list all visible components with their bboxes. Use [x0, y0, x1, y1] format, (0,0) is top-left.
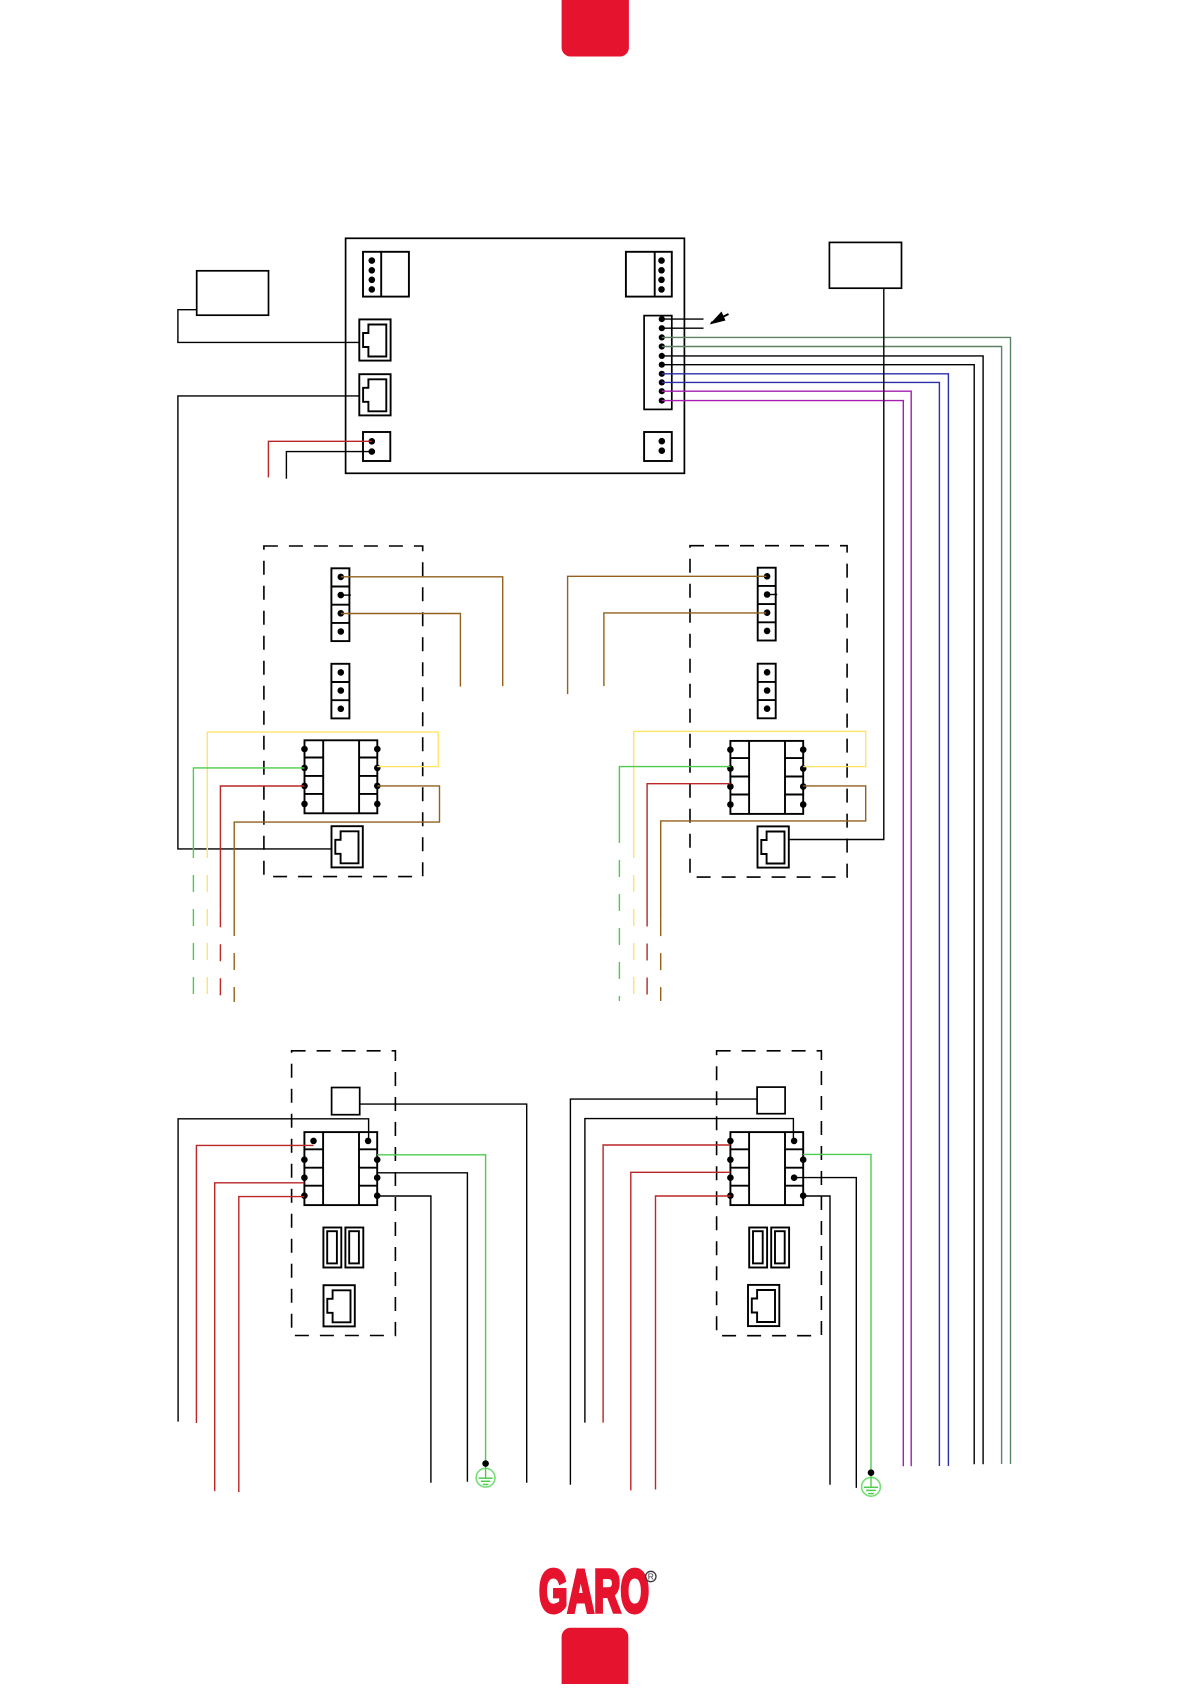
- relay K4 (lower-right): [727, 1132, 806, 1205]
- RJ45 jack (lower-left module): [324, 1285, 355, 1326]
- terminal block X2 (controller top-right): [626, 252, 672, 297]
- wire J2 to left comms bus: [178, 396, 359, 849]
- pin header P1 (10-pin): [644, 316, 672, 410]
- brown wire K2: [661, 786, 866, 1001]
- wire top-right box to right module RJ45: [788, 288, 883, 839]
- red wire K2: [647, 784, 730, 1001]
- terminal strip TS2 (middle-left, 3 pole): [331, 664, 349, 719]
- controller U1 outline: [346, 238, 685, 473]
- svg-text:R: R: [648, 1572, 654, 1582]
- wire P1 pin5 (black): [662, 356, 983, 1464]
- green wire K1: [193, 768, 304, 1004]
- wire small box to bottom right: [360, 1104, 527, 1483]
- yellow wire K2: [634, 731, 866, 1001]
- wire P1 pin10 (magenta): [662, 401, 904, 1467]
- black wire K4 pin4: [803, 1196, 830, 1485]
- RJ45 jack (middle-left module): [332, 826, 363, 867]
- green earth wire K4: [803, 1154, 871, 1472]
- small box (lower-right module): [757, 1087, 785, 1114]
- lower-right module dashed border: [717, 1051, 822, 1336]
- RJ45 jack J2 (controller lower): [359, 374, 390, 415]
- small box (lower-left module): [332, 1088, 360, 1115]
- wire P1 pin4 (green): [662, 347, 1002, 1465]
- wire P1 pin9 (magenta): [662, 391, 911, 1466]
- relay K2 (middle-right): [727, 741, 806, 814]
- pin1 stub wire: [662, 318, 704, 320]
- brown wire TS3 pin3: [604, 613, 766, 686]
- pin2 stub wire: [662, 327, 704, 329]
- red wire K4 pin3: [631, 1172, 731, 1490]
- ground symbol (left): [476, 1460, 495, 1487]
- wire left box to J1: [178, 310, 359, 343]
- wire relay K3 top pin loop: [178, 1119, 369, 1422]
- middle-right module dashed border: [690, 546, 847, 877]
- red header tab: [562, 0, 629, 57]
- wire small box to bottom left: [570, 1099, 757, 1485]
- terminal block X3 (controller bottom-left 2-pin): [363, 432, 390, 461]
- green earth wire K3: [377, 1155, 485, 1464]
- wire relay K4 top pin loop: [585, 1119, 794, 1423]
- lower-left module dashed border: [292, 1051, 396, 1336]
- RJ45 jack (lower-right module): [748, 1285, 779, 1326]
- arrow marker: [710, 312, 729, 325]
- RJ45 jack (middle-right module): [758, 826, 789, 867]
- red wire from X3 pin1: [268, 441, 371, 477]
- terminal block X4 (controller bottom-right 2-pin): [644, 432, 672, 461]
- USB port B (lower-right): [771, 1228, 789, 1268]
- terminal strip TS1 (middle-left, 4 pole): [331, 568, 351, 641]
- brown wire TS3 pin1: [568, 576, 767, 694]
- wire P1 pin6 (black): [662, 365, 974, 1465]
- red wire K3 pin1: [196, 1145, 313, 1423]
- yellow wire K1: [207, 732, 438, 1003]
- black wire K3 pin3: [377, 1173, 467, 1482]
- red wire K3 pin4: [239, 1197, 305, 1493]
- left accessory box: [197, 271, 269, 315]
- black wire K3 pin4: [377, 1196, 431, 1483]
- wire P1 pin7 (blue): [662, 374, 949, 1466]
- terminal block X1 (controller top-left): [363, 252, 409, 297]
- red wire K4 pin1: [603, 1145, 730, 1423]
- brown wire K1: [234, 786, 439, 1002]
- USB port A (lower-right): [749, 1228, 767, 1268]
- RJ45 jack J1 (controller upper): [359, 319, 390, 360]
- relay K1 (middle-left): [301, 740, 380, 813]
- USB port A (lower-left): [323, 1228, 341, 1268]
- wire P1 pin8 (blue): [662, 382, 940, 1466]
- brown wire TS1 pin1: [341, 577, 503, 686]
- black wire K4 pin3: [794, 1178, 856, 1488]
- red footer tab: [562, 1628, 629, 1689]
- brown wire TS1 pin3: [341, 614, 461, 687]
- wire P1 pin3 (green): [662, 337, 1011, 1464]
- ground symbol (right): [862, 1469, 881, 1496]
- red wire K3 pin3: [215, 1183, 305, 1491]
- USB port B (lower-left): [345, 1228, 363, 1268]
- top-right accessory box: [829, 242, 901, 288]
- svg-text:GARO: GARO: [539, 1558, 649, 1625]
- red wire K4 pin4: [656, 1196, 731, 1490]
- terminal strip TS3 (middle-right, 4 pole): [758, 568, 778, 641]
- black wire from X3 pin2: [286, 452, 371, 479]
- red wire K1: [220, 786, 304, 1002]
- relay K3 (lower-left): [301, 1132, 380, 1205]
- terminal strip TS4 (middle-right, 3 pole): [758, 664, 776, 719]
- green wire K2: [619, 767, 730, 1001]
- GARO logo: [539, 1558, 656, 1625]
- middle-left module dashed border: [264, 546, 423, 877]
